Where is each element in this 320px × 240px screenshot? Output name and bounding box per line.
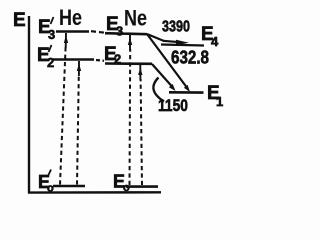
transition 1150 E2 to E1 [152,64,176,91]
svg-text:4: 4 [211,34,219,49]
level E0' (He ground) [53,185,85,188]
svg-text:E: E [13,10,26,31]
pump arrow He to E2' [77,61,81,185]
svg-text:o: o [123,182,130,194]
level E4 (Ne) [161,45,204,46]
decay arc at E1 [153,78,164,102]
level E1 (Ne) [169,91,204,94]
svg-text:1150: 1150 [158,96,188,115]
svg-text:3: 3 [48,27,55,42]
svg-text:2: 2 [47,55,54,70]
level E3' (He) [56,30,89,33]
svg-text:1: 1 [216,94,223,109]
label E4 [201,24,219,49]
svg-text:3: 3 [116,24,123,39]
pump arrow He to E3' [60,33,68,185]
level E0 (Ne ground) [126,185,158,188]
label E3' [38,17,55,42]
level E2 (Ne) [105,62,152,65]
label E1 [207,83,223,109]
svg-text:632.8: 632.8 [171,48,209,68]
svg-text:2: 2 [114,52,121,67]
svg-text:o: o [47,183,54,195]
label E0 [113,172,130,195]
connector dashes E3'-E3 [91,31,104,32]
svg-text:3390: 3390 [162,19,190,36]
pump arrow Ne to E3 [128,35,132,185]
energy axis [28,16,30,193]
level E2' (He) [53,58,94,61]
transition 632.8 E3 to E1 [147,34,190,92]
label E0' [38,170,54,195]
label E2' [37,45,54,70]
transition 3390 E3 to E4 [147,34,189,45]
pump arrow Ne to E2 [138,65,142,185]
svg-text:Ne: Ne [124,6,147,31]
level E3 (Ne) [105,33,147,34]
label E2 [104,44,121,67]
label E3 [106,14,123,39]
connector dash E2'-E2 [96,59,104,62]
svg-text:He: He [59,5,82,30]
ground baseline [28,191,161,194]
